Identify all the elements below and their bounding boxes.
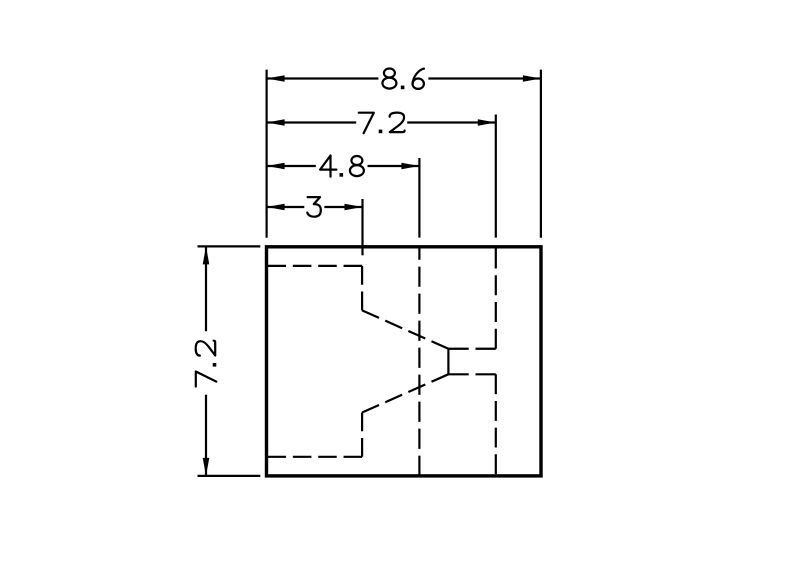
hidden line: upper pocket horizontal: [268, 265, 363, 267]
extension line top-left (vertical dim): [198, 245, 261, 247]
dimension 8.6: text: [382, 69, 424, 90]
dimension 4.8: right arrow: [401, 163, 419, 170]
dimension 3: left arrow: [267, 204, 285, 211]
hidden line: throat top to 7.2 line: [448, 348, 495, 350]
hidden line: lower pocket horizontal: [268, 456, 363, 458]
hidden line: upper pocket vertical at 3: [361, 266, 363, 311]
dimension 4.8: text: [320, 156, 364, 177]
dimension 7.2: line: [267, 121, 496, 123]
extension line at left edge: [266, 70, 268, 238]
hidden line: throat vertical: [447, 349, 449, 375]
vertical dimension 7.2: text (rotated): [196, 341, 217, 387]
extension line at 7.2: [495, 115, 497, 238]
extension line at right edge: [540, 70, 542, 238]
hidden line: lower pocket vertical at 3: [361, 413, 363, 457]
vertical dimension 7.2: line: [205, 246, 207, 476]
extension line at 4.8: [418, 158, 420, 238]
hidden line: throat bottom to 7.2 line: [448, 373, 495, 375]
hidden line: lower pocket diagonal: [362, 374, 448, 412]
dimension 7.2: right arrow: [478, 119, 496, 126]
dimension 3: right arrow: [345, 204, 363, 211]
extension line at 3: [361, 199, 363, 255]
hidden line: upper pocket diagonal: [362, 310, 448, 348]
dimension 3: line: [267, 206, 363, 208]
extension line bottom-left (vertical dim): [198, 475, 261, 477]
dimension 4.8: line: [267, 165, 420, 167]
hidden line: vertical at 7.2 lower: [495, 374, 497, 474]
dimension 4.8: left arrow: [267, 163, 285, 170]
part outline rectangle: [267, 247, 542, 476]
vertical dimension 7.2: top arrow: [203, 246, 210, 264]
dimension 7.2: left arrow: [267, 119, 285, 126]
hidden line: vertical at 7.2 upper: [495, 249, 497, 349]
dimension 8.6: right arrow: [523, 75, 541, 82]
dimension 7.2: text: [359, 113, 405, 134]
dimension 8.6: left arrow: [267, 75, 285, 82]
hidden line: vertical at 4.8: [418, 247, 420, 476]
vertical dimension 7.2: bottom arrow: [203, 458, 210, 476]
dimension 8.6: line: [267, 77, 541, 79]
dimension 3: text: [307, 197, 321, 217]
